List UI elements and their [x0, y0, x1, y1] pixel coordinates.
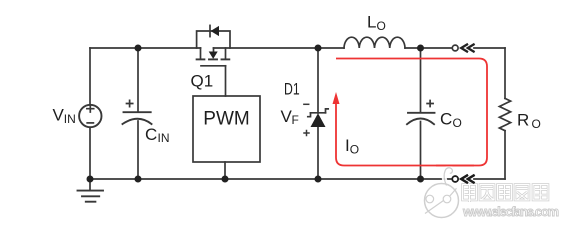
svg-text:IN: IN — [158, 131, 170, 145]
svg-text:C: C — [145, 125, 157, 144]
svg-text:Q1: Q1 — [191, 71, 214, 90]
svg-text:F: F — [292, 113, 299, 127]
svg-text:IN: IN — [64, 112, 76, 126]
svg-text:L: L — [367, 13, 376, 32]
svg-text:V: V — [53, 106, 65, 125]
svg-text:www.elecfans.com: www.elecfans.com — [462, 204, 559, 219]
svg-text:C: C — [440, 110, 452, 129]
svg-text:O: O — [377, 19, 386, 33]
svg-text:O: O — [350, 143, 359, 157]
svg-text:D1: D1 — [284, 81, 300, 99]
svg-text:O: O — [532, 117, 541, 131]
svg-text:O: O — [453, 116, 462, 130]
svg-text:R: R — [517, 111, 529, 130]
svg-text:PWM: PWM — [203, 108, 249, 129]
